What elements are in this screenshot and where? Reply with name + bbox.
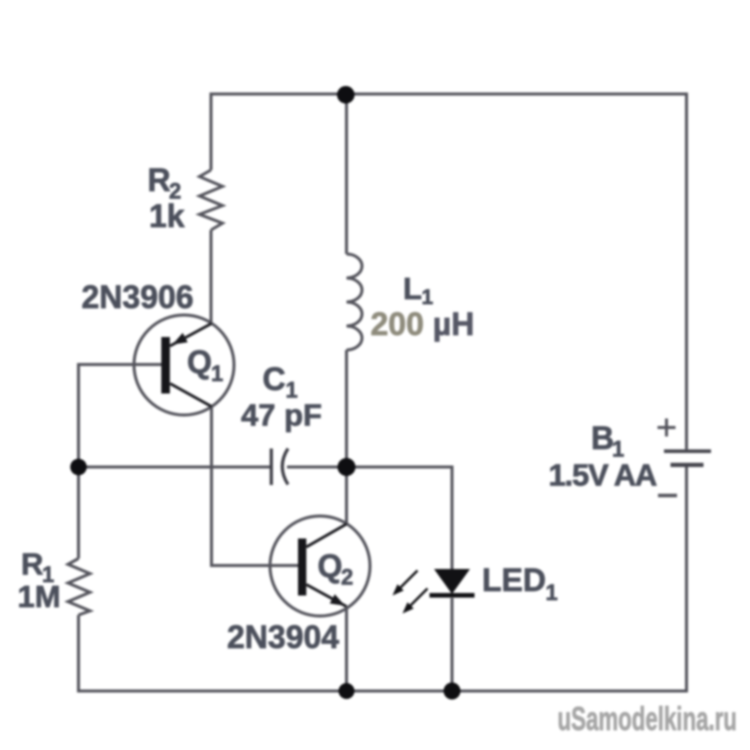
svg-text:LED: LED — [482, 562, 546, 598]
svg-text:C: C — [263, 361, 286, 397]
svg-text:1.5V AA: 1.5V AA — [549, 458, 657, 493]
svg-text:B: B — [591, 420, 614, 456]
svg-text:Q: Q — [187, 344, 212, 380]
svg-text:47 pF: 47 pF — [241, 398, 322, 433]
svg-text:2: 2 — [341, 565, 353, 590]
svg-text:L: L — [403, 271, 422, 306]
svg-text:200 µH: 200 µH — [371, 306, 475, 342]
svg-text:Q: Q — [318, 548, 343, 584]
svg-text:1M: 1M — [18, 579, 61, 614]
svg-text:R: R — [148, 162, 171, 198]
svg-text:2N3906: 2N3906 — [82, 279, 194, 315]
svg-text:1: 1 — [546, 580, 558, 605]
svg-text:uSamodelkina.ru: uSamodelkina.ru — [558, 701, 737, 737]
svg-text:2N3904: 2N3904 — [227, 619, 339, 655]
svg-text:1: 1 — [211, 361, 223, 386]
svg-text:1k: 1k — [149, 198, 185, 234]
svg-text:R: R — [21, 547, 43, 582]
